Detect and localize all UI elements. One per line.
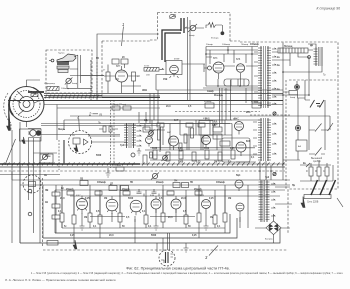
wire lower band stubs: [62, 190, 240, 228]
wire solid boundary corner: [97, 34, 159, 100]
resistor column row: [143, 150, 235, 164]
IF tube V4: [235, 122, 244, 135]
svg-text:ЗОВ: ЗОВ: [142, 90, 147, 92]
extra tiny labels speckle: [44, 43, 314, 237]
wire T3 right: [275, 167, 292, 204]
headphone jack J1 dashed circle: [159, 250, 175, 266]
relay contact S1: [310, 100, 324, 108]
mid long wires: [44, 105, 283, 141]
svg-text:Сеть 220В: Сеть 220В: [307, 202, 319, 204]
audio tube V14: [236, 203, 244, 214]
resistor tall RT1: [158, 129, 161, 140]
svg-text:1: 1: [122, 22, 124, 27]
wire mic leads: [81, 75, 104, 77]
resistor ladder R4: [278, 48, 308, 53]
ground arrow coil: [22, 137, 25, 144]
transformer T1: [258, 46, 271, 108]
wire dashed verticals mid: [111, 100, 115, 168]
svg-text:20мкф: 20мкф: [122, 188, 129, 191]
lower stage wires: [12, 180, 290, 196]
lamp dashed circle FL1: [69, 131, 92, 154]
wire dashed inner boundary: [102, 41, 150, 98]
wire dashed upper boundary left: [150, 13, 158, 41]
wire top right connections: [272, 44, 322, 72]
trimmer TC4: [162, 155, 169, 162]
microphone box dashed: [46, 50, 92, 93]
svg-text:1М: 1М: [228, 198, 231, 200]
capacitors C275 pair: [112, 106, 131, 110]
svg-text:ЛВ: ЛВ: [45, 190, 49, 192]
node pointer 3: [209, 246, 218, 256]
svg-text:5000: 5000: [128, 198, 134, 200]
coil box outline: [20, 129, 42, 141]
audio tube V8: [77, 196, 88, 214]
resistor bottom strip RB: [47, 241, 58, 246]
wire lamp leads: [88, 136, 126, 142]
mid row verticals: [145, 120, 232, 152]
small box row BR1: [213, 127, 222, 139]
svg-text:Якорь: Якорь: [58, 129, 66, 131]
svg-text:20,0: 20,0: [181, 198, 186, 200]
box ARU: [220, 141, 230, 146]
svg-text:УВ: УВ: [99, 115, 102, 117]
magneto generator G1: [9, 80, 44, 127]
top row boxes lower band: [80, 181, 189, 191]
svg-text:К странице 96: К странице 96: [317, 7, 341, 11]
lower resistor boxes: [60, 213, 227, 224]
svg-text:100мкф: 100мкф: [222, 43, 230, 46]
wire dashed right top boundary: [230, 41, 338, 234]
junction dots osc: [205, 49, 253, 87]
lamp indicator HL2: [295, 125, 300, 130]
wire verticals above T2: [139, 112, 146, 123]
ground bottom: [73, 240, 77, 249]
junction dots T2c: [259, 170, 272, 172]
svg-text:Фонарь: Фонарь: [214, 94, 224, 97]
node pointer 4: [78, 119, 81, 130]
svg-text:прибор: прибор: [313, 161, 321, 163]
svg-text:1В: 1В: [45, 202, 48, 204]
svg-text:20,0: 20,0: [60, 198, 65, 200]
svg-text:1М: 1М: [214, 162, 217, 164]
oscillator tube V3: [236, 64, 244, 78]
svg-text:20,0: 20,0: [166, 106, 171, 108]
ground T2: [137, 148, 141, 155]
svg-text:5000: 5000: [151, 235, 157, 237]
wire bus y90: [156, 89, 283, 91]
svg-text:15В: 15В: [163, 79, 168, 81]
trimmer cap TC2: [41, 154, 49, 161]
receiver transformer T2: [124, 123, 136, 148]
svg-text:20мкф: 20мкф: [156, 181, 163, 184]
capacitor bank C4: [224, 79, 249, 86]
wire long verticals center: [150, 80, 252, 127]
capacitor CL2: [152, 189, 160, 197]
wire left risers: [12, 122, 40, 243]
wire mic frame: [67, 55, 92, 88]
wire dashed drop: [58, 140, 60, 170]
wire long verticals to bus: [173, 17, 191, 101]
T3 tap arrows: [271, 183, 275, 216]
wire S1 feed: [305, 80, 310, 100]
capacitor C3: [112, 59, 128, 64]
resistor RV1: [191, 128, 194, 138]
dashed verticals center-left: [91, 60, 97, 100]
audio tube V11: [151, 196, 161, 213]
node pointer 5b: [337, 198, 343, 207]
T2 right tap arrows: [137, 125, 142, 146]
svg-text:1М: 1М: [84, 217, 87, 219]
mid component row wires: [140, 120, 260, 160]
hatched resistor RH2: [144, 68, 164, 72]
svg-text:Вызывной: Вызывной: [311, 157, 323, 160]
lamp indicator HL3: [295, 85, 300, 90]
antenna connector P1: [170, 14, 176, 18]
center tube V16: [202, 136, 211, 149]
svg-text:400мкф: 400мкф: [204, 100, 212, 103]
transformer T1 tap arrows: [254, 48, 276, 104]
generator terminal box: [31, 94, 38, 97]
svg-text:4мкф: 4мкф: [189, 34, 195, 37]
svg-text:5Ц4: 5Ц4: [236, 174, 241, 177]
wire osc row horizontals: [203, 47, 262, 89]
svg-text:П0мкф: П0мкф: [241, 43, 248, 46]
svg-text:0,25: 0,25: [230, 148, 235, 150]
wire receiver verticals: [161, 124, 202, 151]
bottom-left component column: [52, 185, 60, 233]
terminal bar X1: [304, 195, 331, 199]
mid thick bus: [0, 163, 140, 165]
audio tube V12: [171, 196, 181, 213]
bottom nested rectangle wires: [20, 228, 280, 243]
svg-text:20мкф: 20мкф: [194, 188, 201, 191]
wire mid lower band: [90, 216, 195, 218]
hatched resistor RH1: [47, 87, 59, 91]
wire V1 row top: [108, 64, 125, 72]
svg-text:ВУС: ВУС: [246, 112, 251, 114]
capacitor C7: [99, 126, 118, 132]
wire dashed around generator: [4, 93, 11, 130]
thick cable bundle: [162, 18, 184, 62]
svg-text:100мкф: 100мкф: [61, 87, 69, 90]
resistor RV2: [184, 134, 187, 143]
wire osc verticals: [206, 47, 258, 87]
wire dark drop lamp: [63, 140, 65, 163]
svg-text:20,0: 20,0: [168, 217, 173, 219]
spark coil L1: [28, 129, 41, 138]
wire coil to right: [41, 124, 230, 135]
svg-text:20мкф: 20мкф: [66, 188, 73, 191]
box AF unit: [296, 140, 307, 151]
box V1b unit: [166, 61, 182, 75]
bridge rectifier VD1: [266, 221, 281, 235]
tiny labels lower band: [60, 181, 231, 228]
node pointer 6: [5, 139, 16, 165]
wire dashed mid band: [175, 112, 290, 116]
svg-text:ЛЗ: ЛЗ: [80, 179, 84, 181]
resistor RT2: [150, 152, 153, 158]
wire dashed bottom-left vertical: [42, 178, 44, 246]
small circles left column: [28, 189, 32, 216]
svg-text:6А7: 6А7: [174, 119, 179, 122]
wire R1 drop: [221, 25, 223, 32]
resistor RL1: [40, 154, 53, 163]
svg-text:5000: 5000: [152, 148, 158, 150]
svg-text:Л. А. Липин и Л. К. Ляпин — Пр: Л. А. Липин и Л. К. Ляпин — Практические…: [5, 278, 116, 282]
svg-text:1 — блок У-В (усилитель и пере: 1 — блок У-В (усилитель и передатчик); 2…: [31, 272, 344, 275]
capacitor CV1: [214, 121, 218, 125]
tube V1 modulator: [115, 66, 128, 88]
trimmer cap TC1: [151, 173, 159, 180]
svg-text:6П3: 6П3: [213, 57, 218, 60]
relay contact S2: [309, 124, 325, 132]
wire right column: [283, 98, 330, 165]
svg-text:0,25: 0,25: [209, 198, 214, 200]
symbol small circle mid: [273, 172, 276, 175]
junction P2: [308, 56, 311, 59]
wire J1 drops: [157, 233, 170, 252]
svg-text:0,25: 0,25: [196, 162, 201, 164]
main bus lower: [8, 100, 283, 102]
ground mid2: [184, 243, 189, 252]
node pointer 5: [306, 163, 310, 167]
svg-text:ПЧ: ПЧ: [174, 181, 178, 183]
svg-text:5000: 5000: [178, 162, 184, 164]
microphone M1: [49, 54, 76, 73]
resistor R5: [116, 167, 124, 171]
wire dashed top-center boundary: [158, 13, 231, 42]
resistor R2: [106, 72, 110, 81]
audio tube V10: [130, 200, 142, 215]
svg-text:Фиг. 62. Принципиальная схема: Фиг. 62. Принципиальная схема центрально…: [126, 266, 229, 270]
labels under resistor row: [178, 162, 232, 164]
svg-text:1М: 1М: [210, 217, 213, 219]
svg-text:Умформер: Умформер: [44, 82, 56, 85]
svg-text:Трубка: Трубка: [58, 53, 65, 55]
svg-text:Тр2: Тр2: [120, 145, 125, 147]
box ARU2: [143, 127, 150, 132]
node pointer 2: [93, 113, 99, 115]
svg-text:0мкф: 0мкф: [290, 96, 295, 99]
svg-text:100мкф: 100мкф: [250, 43, 259, 46]
resistor Rb: [317, 167, 321, 176]
resistor Ra: [309, 167, 313, 176]
audio tube V13: [202, 200, 211, 213]
relay contact S3: [309, 148, 325, 156]
wire tube V1 links: [70, 76, 141, 94]
choke L2: [314, 47, 323, 66]
svg-text:Фонарь: Фонарь: [211, 37, 220, 40]
oscillator tube V2: [204, 62, 224, 79]
junction dots right: [282, 71, 310, 96]
bell dashed circle: [23, 175, 41, 193]
svg-text:20мкф: 20мкф: [206, 43, 213, 46]
lamp HL1: [221, 32, 224, 35]
svg-text:6Х6: 6Х6: [246, 141, 251, 143]
arrow ground lead G1: [7, 104, 11, 131]
output transformer T3: [259, 180, 270, 222]
symbol small circle top: [273, 112, 276, 115]
svg-text:6Л6: 6Л6: [236, 58, 241, 61]
generator top bar: [28, 91, 44, 93]
variable capacitor C2: [185, 24, 204, 32]
wire bridge leads: [255, 214, 290, 243]
power cable slashes: [311, 180, 336, 195]
wire coil right link: [34, 152, 58, 154]
svg-text:ЗОЗЗ: ЗОЗЗ: [144, 66, 150, 68]
ground X1: [301, 197, 305, 208]
detector block rounded box: [222, 138, 250, 162]
svg-text:100мкф: 100мкф: [216, 181, 225, 184]
node pointer 1: [122, 27, 124, 47]
mixer tube V6: [169, 136, 179, 150]
svg-text:100мкф: 100мкф: [97, 181, 106, 184]
wire dashed left vertical: [90, 60, 92, 98]
wire HL3 links: [283, 81, 305, 98]
svg-text:5000: 5000: [204, 148, 210, 150]
audio tube V9: [106, 196, 118, 214]
wire bottom stubs: [74, 228, 225, 243]
svg-text:Смкф: Смкф: [207, 90, 214, 93]
lower caps row: [67, 191, 202, 195]
IF transformer T2c: [258, 118, 271, 161]
capacitor Cb: [325, 167, 329, 176]
box center tube unit: [199, 121, 213, 136]
svg-text:5000: 5000: [96, 155, 102, 157]
svg-text:6П3Е: 6П3Е: [174, 59, 180, 61]
small tube V7: [146, 137, 153, 147]
svg-text:0,25: 0,25: [192, 235, 197, 237]
resistor R1: [206, 23, 222, 29]
wire dashed mid right boundary: [289, 79, 336, 81]
svg-text:0,25: 0,25: [178, 148, 183, 150]
variable capacitor C1: [65, 78, 73, 85]
wire dashed vertical x286: [285, 80, 287, 189]
wire dashed bottom horizontal: [43, 249, 288, 251]
capacitor CL1: [137, 189, 145, 197]
main bus thin wires: [44, 94, 283, 97]
wire bottom right block: [300, 160, 333, 181]
capacitor row C6: [205, 103, 261, 108]
rect tube V15: [235, 180, 243, 191]
main bus hatched band: [44, 96, 102, 98]
svg-text:Тр3: Тр3: [265, 177, 270, 179]
mid small rect row: [157, 123, 205, 127]
svg-text:0,25: 0,25: [85, 198, 90, 200]
lower verticals: [62, 185, 248, 228]
svg-text:4мкф: 4мкф: [72, 82, 77, 85]
T2c stubs to T3: [260, 161, 271, 180]
svg-text:0,25: 0,25: [70, 235, 75, 237]
svg-text:6Н7: 6Н7: [116, 65, 121, 68]
small circle comp: [131, 153, 135, 157]
resistor RV3: [179, 143, 182, 151]
T2c tap arrows: [253, 122, 276, 154]
wire V1b box links: [156, 64, 205, 90]
svg-text:Реле: Реле: [45, 156, 51, 158]
relay contact S2b: [325, 123, 333, 131]
ground mid: [106, 168, 111, 177]
capacitor C5: [289, 91, 298, 95]
svg-text:1М: 1М: [104, 198, 107, 200]
svg-text:6Ж7: 6Ж7: [76, 195, 81, 197]
tube V1b: [170, 65, 179, 78]
trimmer TC3: [148, 130, 155, 137]
svg-text:20,0: 20,0: [109, 235, 114, 237]
svg-text:Выпрям.: Выпрям.: [265, 239, 273, 241]
svg-text:Потенц: Потенц: [284, 46, 293, 48]
resistor R3: [132, 72, 136, 81]
det tube V5: [236, 142, 246, 156]
svg-text:АФ: АФ: [298, 145, 301, 148]
ground symbols lower: [80, 222, 85, 230]
